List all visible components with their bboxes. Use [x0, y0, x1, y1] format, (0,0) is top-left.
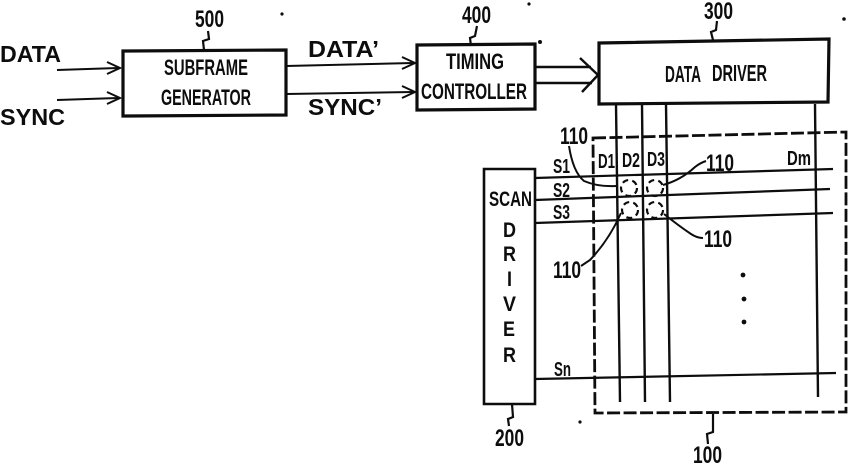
- pixel cell circle at D3/S2: [647, 202, 663, 218]
- wire data line Dm: [815, 104, 818, 397]
- block U100 display panel outline: [593, 132, 846, 413]
- svg-text:DRIVER: DRIVER: [712, 60, 767, 86]
- svg-text:R: R: [503, 243, 516, 266]
- block U500 SUBFRAME GENERATOR: [123, 50, 286, 116]
- svg-text:R: R: [503, 344, 516, 367]
- svg-text:TIMING: TIMING: [446, 49, 504, 74]
- wire data line D3: [666, 104, 670, 402]
- svg-text:D: D: [503, 219, 516, 242]
- svg-text:S2: S2: [553, 180, 570, 202]
- svg-text:Sn: Sn: [554, 359, 571, 381]
- wire SYNC arrow into subframe generator: [57, 92, 120, 104]
- svg-text:DATA’: DATA’: [308, 36, 379, 62]
- svg-text:110: 110: [704, 226, 732, 253]
- label 200 with leader: [495, 404, 524, 452]
- svg-text:SCAN: SCAN: [489, 188, 532, 211]
- label 100 with leader: [693, 414, 722, 465]
- vertical ellipsis dots in panel: [741, 273, 747, 325]
- wire scan line S2: [535, 189, 830, 200]
- pixel cell circle at D3/S1: [647, 180, 663, 196]
- label 400 with leader: [462, 2, 491, 46]
- wire DATA' arrow to timing controller: [286, 57, 415, 69]
- label 300 with leader: [704, 0, 733, 40]
- wire SYNC' arrow to timing controller: [286, 86, 415, 98]
- wire data line D2: [642, 104, 645, 402]
- svg-text:200: 200: [495, 425, 524, 452]
- wire scan line S1: [535, 169, 833, 178]
- wire double-line bus arrow timing controller to data driver: [535, 58, 598, 92]
- wire data line D1: [616, 104, 620, 402]
- svg-text:V: V: [503, 293, 516, 316]
- stray scan specks: [280, 2, 845, 423]
- svg-text:Dm: Dm: [787, 148, 811, 170]
- label 110 bottom-right with leader to pixel: [664, 214, 732, 253]
- label 110 right with leader to pixel: [663, 150, 734, 185]
- svg-text:SYNC: SYNC: [0, 104, 65, 130]
- wire DATA arrow into subframe generator: [57, 62, 120, 74]
- pixel cell circle at D2/S2: [622, 202, 638, 218]
- label 110 bottom-left with leader to pixel: [553, 213, 621, 284]
- svg-text:110: 110: [560, 123, 588, 150]
- svg-text:110: 110: [706, 150, 734, 177]
- svg-text:SYNC’: SYNC’: [308, 94, 382, 120]
- svg-text:D2: D2: [622, 150, 640, 172]
- svg-text:400: 400: [462, 2, 491, 29]
- svg-text:S3: S3: [553, 202, 570, 224]
- svg-text:110: 110: [553, 257, 581, 284]
- svg-text:I: I: [507, 268, 512, 291]
- svg-text:500: 500: [195, 6, 224, 33]
- svg-text:100: 100: [693, 442, 722, 465]
- svg-text:SUBFRAME: SUBFRAME: [164, 55, 248, 80]
- label 110 top with leader to pixel: [560, 123, 616, 186]
- svg-text:D3: D3: [647, 149, 665, 171]
- block U200 SCAN DRIVER: [484, 169, 535, 404]
- wire scan line S3: [535, 213, 833, 223]
- svg-text:DATA: DATA: [0, 41, 61, 67]
- wire scan line Sn: [535, 373, 836, 379]
- svg-text:S1: S1: [553, 156, 570, 178]
- svg-text:GENERATOR: GENERATOR: [161, 85, 251, 110]
- svg-text:300: 300: [704, 0, 733, 25]
- svg-text:D1: D1: [598, 151, 615, 173]
- pixel cell circle at D2/S1: [621, 180, 637, 196]
- block U400 TIMING CONTROLLER: [417, 44, 535, 110]
- label 500 with leader: [195, 6, 224, 50]
- svg-text:CONTROLLER: CONTROLLER: [421, 79, 527, 104]
- svg-text:E: E: [503, 318, 515, 341]
- block U300 DATA DRIVER: [599, 39, 829, 104]
- svg-text:DATA: DATA: [665, 61, 701, 87]
